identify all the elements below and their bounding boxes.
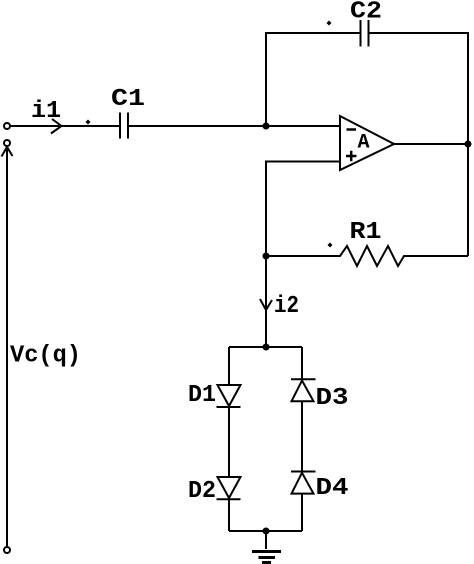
svg-text:i1: i1	[31, 98, 61, 125]
svg-text:D2: D2	[188, 478, 216, 505]
svg-text:A: A	[358, 132, 370, 155]
svg-text:D4: D4	[316, 475, 349, 502]
svg-text:R1: R1	[350, 219, 382, 246]
svg-text:C1: C1	[111, 86, 145, 113]
svg-text:D1: D1	[188, 382, 216, 409]
svg-text:C2: C2	[350, 0, 382, 26]
svg-text:i2: i2	[274, 293, 299, 320]
svg-text:Vc(q): Vc(q)	[10, 343, 81, 370]
svg-text:D3: D3	[316, 385, 349, 412]
